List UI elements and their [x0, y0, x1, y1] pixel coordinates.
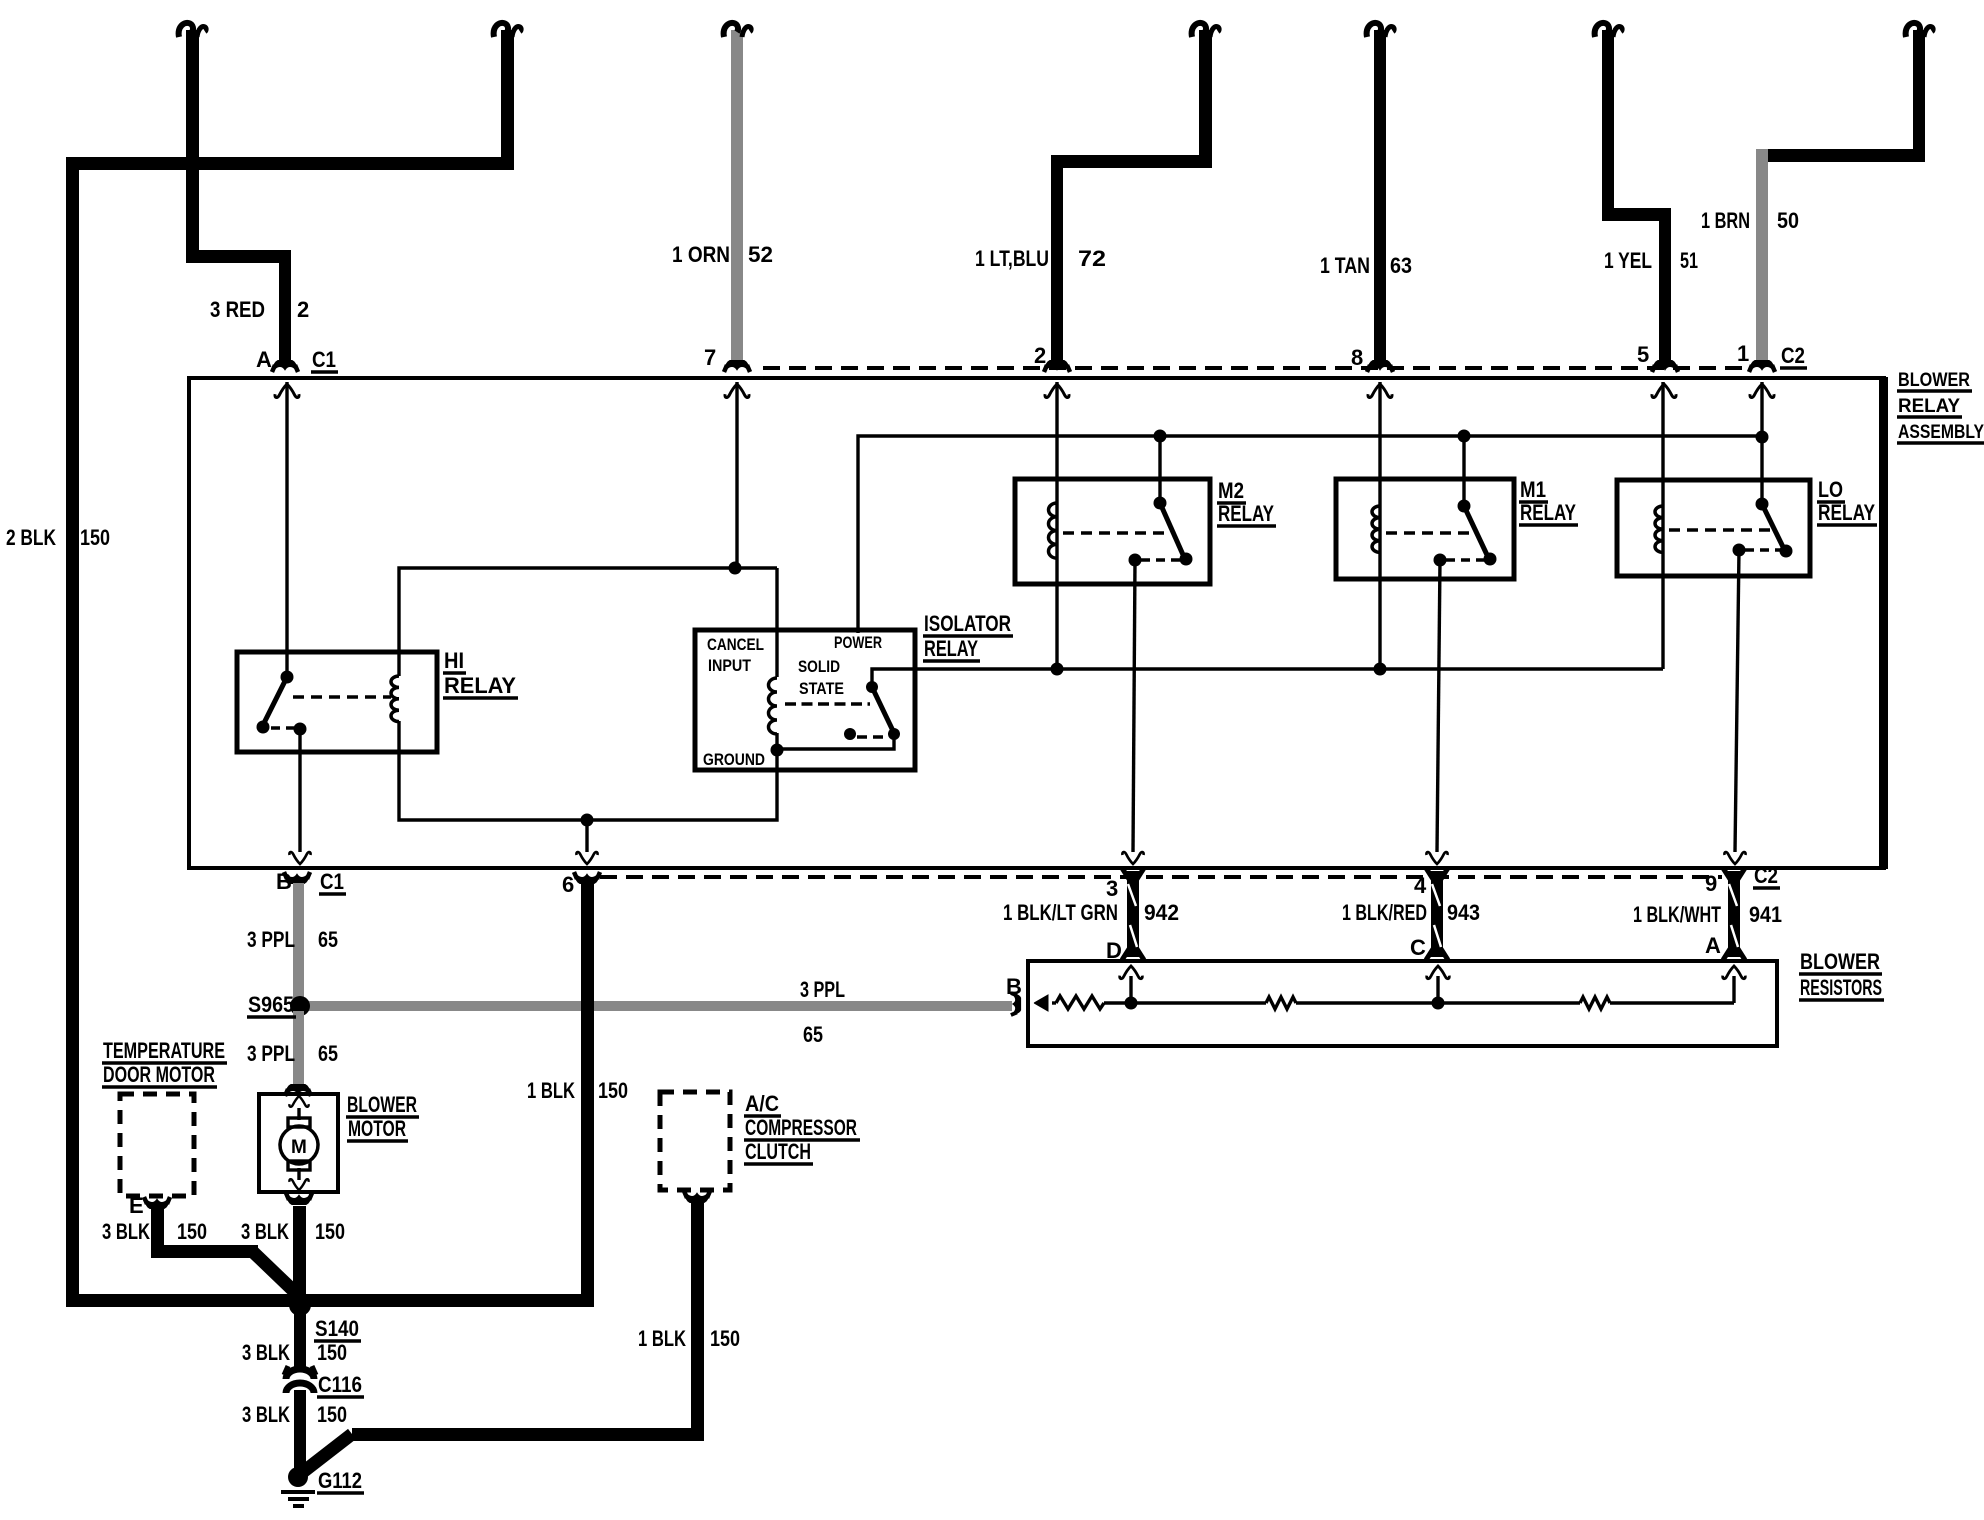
svg-text:3 BLK: 3 BLK: [242, 1340, 290, 1365]
svg-text:LO: LO: [1818, 477, 1843, 502]
label M2 RELAY: [1218, 478, 1274, 526]
svg-text:1 BRN: 1 BRN: [1701, 208, 1750, 233]
svg-text:RELAY: RELAY: [924, 636, 978, 661]
connector C116: [284, 1366, 316, 1393]
svg-text:7: 7: [704, 345, 716, 370]
svg-text:RELAY: RELAY: [1818, 500, 1875, 525]
terminal A riser: [1732, 976, 1735, 1003]
node 8 line: [1378, 382, 1381, 669]
svg-text:150: 150: [80, 525, 110, 550]
connector E: [144, 1197, 170, 1208]
hook W1: [179, 23, 206, 37]
label B C1 bottom: [276, 869, 344, 894]
svg-text:RESISTORS: RESISTORS: [1800, 975, 1882, 1000]
svg-text:8: 8: [1351, 345, 1363, 370]
svg-text:3 RED: 3 RED: [210, 297, 265, 322]
connector at a/c compressor clutch: [684, 1191, 710, 1202]
connector B of blower resistors: [1011, 993, 1020, 1015]
svg-text:1: 1: [1737, 341, 1749, 366]
connector bar 9 (941) C2: [1723, 868, 1745, 960]
wire 3 PPL 65 lower (gray): [293, 1011, 304, 1087]
M1 relay: [1336, 479, 1514, 579]
svg-text:1 BLK: 1 BLK: [638, 1326, 686, 1351]
svg-text:3 BLK: 3 BLK: [242, 1402, 290, 1427]
node 5 line: [1661, 382, 1664, 669]
svg-text:A: A: [256, 347, 272, 372]
label 3 PPL 65 upper: [247, 927, 338, 952]
svg-text:150: 150: [317, 1402, 347, 1427]
svg-text:S140: S140: [315, 1316, 359, 1341]
svg-text:6: 6: [562, 872, 574, 897]
HI relay output line to B C1: [289, 729, 310, 864]
a/c compressor clutch box (dashed): [660, 1092, 730, 1190]
svg-text:1 BLK/LT GRN: 1 BLK/LT GRN: [1003, 900, 1118, 925]
svg-text:M: M: [291, 1137, 307, 1158]
label 1 BLK/RED 943: [1342, 900, 1480, 925]
wire 1 BLK 150 from a/c compressor clutch: [303, 1202, 704, 1472]
wire 3 PPL 65 upper (gray): [293, 883, 304, 1004]
connector 7: [724, 361, 750, 372]
svg-text:BLOWER: BLOWER: [347, 1092, 417, 1117]
inner rectangle wiring (HI coil / isolator coil loop): [399, 562, 777, 827]
isolator relay U1: [695, 630, 915, 770]
connector 6: [574, 872, 600, 883]
svg-text:C1: C1: [320, 869, 344, 894]
resistor R3: [1580, 997, 1610, 1009]
blower relay assembly box: [189, 377, 1888, 869]
label 3 PPL 65 lower: [247, 1041, 338, 1066]
connector 5: [1652, 361, 1678, 372]
svg-text:CLUTCH: CLUTCH: [745, 1139, 811, 1164]
label ISOLATOR RELAY: [924, 611, 1011, 661]
svg-text:MOTOR: MOTOR: [348, 1116, 406, 1141]
label HI RELAY: [444, 648, 516, 698]
label A C1: [256, 347, 336, 372]
label 3 BLK 150 temp door: [102, 1219, 207, 1244]
svg-text:C: C: [1410, 935, 1426, 960]
connector at blower motor top: [285, 1085, 311, 1096]
svg-text:BLOWER: BLOWER: [1898, 370, 1970, 391]
svg-text:B: B: [276, 869, 292, 894]
wire 3 PPL 65 horizontal (gray): [300, 1001, 1012, 1011]
label TEMPERATURE DOOR MOTOR: [103, 1038, 225, 1087]
svg-text:S965: S965: [248, 992, 294, 1017]
wire 1 YEL 51: [1602, 30, 1671, 364]
svg-text:HI: HI: [444, 648, 464, 673]
hook W6: [1595, 23, 1622, 37]
hook W3: [724, 23, 751, 37]
label 3 BLK 150 c116-g112: [242, 1402, 347, 1427]
svg-text:STATE: STATE: [799, 679, 844, 698]
svg-text:SOLID: SOLID: [798, 657, 840, 676]
blower resistors internal circuit: [1034, 966, 1745, 1011]
svg-text:150: 150: [177, 1219, 207, 1244]
blower motor box: [259, 1094, 338, 1192]
temperature door motor box (dashed): [120, 1094, 194, 1196]
svg-text:1 BLK: 1 BLK: [527, 1078, 575, 1103]
label 1 ORN 52: [672, 242, 773, 267]
terminal D riser: [1129, 976, 1132, 1003]
svg-text:M2: M2: [1218, 478, 1244, 503]
svg-text:3 BLK: 3 BLK: [241, 1219, 289, 1244]
label LO RELAY: [1818, 477, 1875, 525]
node 2 line: [1055, 382, 1058, 669]
svg-text:150: 150: [598, 1078, 628, 1103]
label 1 BLK 150 a/c: [638, 1326, 740, 1351]
svg-text:1 ORN: 1 ORN: [672, 242, 730, 267]
svg-text:M1: M1: [1520, 477, 1546, 502]
svg-text:941: 941: [1749, 902, 1782, 927]
connector bar 3 (942): [1122, 868, 1144, 960]
connector bar 4 (943): [1426, 868, 1448, 960]
M1 output line to node 4: [1426, 560, 1447, 864]
svg-text:3: 3: [1106, 876, 1118, 901]
label 1 TAN 63: [1320, 253, 1412, 278]
node 7 line: [735, 382, 738, 568]
svg-text:52: 52: [748, 242, 773, 267]
splice S140: [289, 1294, 311, 1316]
svg-text:4: 4: [1414, 873, 1427, 898]
LO output line to node 9: [1724, 550, 1745, 864]
svg-text:50: 50: [1777, 208, 1799, 233]
svg-text:1 YEL: 1 YEL: [1604, 248, 1652, 273]
label BLOWER MOTOR: [347, 1092, 417, 1141]
svg-text:150: 150: [710, 1326, 740, 1351]
svg-text:2: 2: [1034, 343, 1046, 368]
svg-text:C2: C2: [1754, 863, 1778, 888]
svg-text:CANCEL: CANCEL: [707, 635, 764, 654]
wire 1 BLK 150 from node 6: [581, 883, 594, 1307]
hook W5: [1367, 23, 1394, 37]
motor M symbol: [288, 1118, 310, 1127]
dashed connector line C2 bottom: [600, 875, 1722, 879]
svg-text:3 PPL: 3 PPL: [247, 927, 295, 952]
svg-text:G112: G112: [318, 1468, 362, 1493]
svg-text:9: 9: [1705, 871, 1717, 896]
hook W7: [1906, 23, 1933, 37]
ground G112: [281, 1467, 315, 1506]
resistor R2: [1266, 997, 1296, 1009]
svg-text:B: B: [1006, 974, 1022, 999]
svg-text:POWER: POWER: [834, 633, 882, 652]
svg-text:51: 51: [1680, 248, 1698, 273]
label 2 BLK 150: [6, 525, 110, 550]
svg-text:1 BLK/WHT: 1 BLK/WHT: [1633, 902, 1721, 927]
svg-text:INPUT: INPUT: [708, 656, 752, 675]
wire C116 to G112: [294, 1390, 306, 1472]
hook W2: [494, 23, 521, 37]
wire H2 isolator switch bus: [872, 663, 1663, 688]
splice S965: [290, 996, 310, 1016]
connector 8: [1367, 361, 1393, 372]
HI relay: [237, 652, 437, 752]
node 1 line: [1760, 382, 1763, 504]
svg-text:942: 942: [1144, 900, 1179, 925]
svg-text:65: 65: [318, 1041, 338, 1066]
wire 2 BLK 150: [66, 30, 594, 1307]
svg-text:1 TAN: 1 TAN: [1320, 253, 1370, 278]
svg-text:RELAY: RELAY: [1520, 500, 1576, 525]
svg-text:ISOLATOR: ISOLATOR: [924, 611, 1011, 636]
label BLOWER RELAY ASSEMBLY: [1898, 370, 1984, 443]
svg-text:GROUND: GROUND: [703, 750, 765, 769]
label 1 BRN 50: [1701, 208, 1799, 233]
wire 1 ORN 52 (gray): [731, 30, 743, 364]
label M1 RELAY: [1520, 477, 1576, 525]
wire S140 to C116: [294, 1300, 306, 1372]
label SOLID STATE: [798, 657, 844, 698]
M2 relay: [1015, 479, 1210, 584]
label 1 LT BLU 72: [975, 246, 1106, 271]
svg-text:1 LT,BLU: 1 LT,BLU: [975, 246, 1049, 271]
svg-text:943: 943: [1447, 900, 1480, 925]
label 3 RED 2: [210, 297, 309, 322]
label 3 BLK 150 s140-c116: [242, 1340, 347, 1365]
resistor R1: [1056, 996, 1104, 1009]
svg-text:ASSEMBLY: ASSEMBLY: [1898, 422, 1984, 443]
svg-text:5: 5: [1637, 342, 1649, 367]
svg-text:A: A: [1705, 933, 1721, 958]
label 1 BLK/WHT 941: [1633, 902, 1782, 927]
wire 1 LT BLU 72: [1051, 30, 1212, 364]
label 1 BLK/LT GRN 942: [1003, 900, 1179, 925]
svg-text:150: 150: [315, 1219, 345, 1244]
LO relay: [1617, 480, 1810, 576]
wire 3 BLK 150 from blower motor: [293, 1206, 306, 1302]
svg-text:3 PPL: 3 PPL: [247, 1041, 295, 1066]
svg-text:C2: C2: [1781, 343, 1805, 368]
dashed connector line C2 top: [763, 366, 1750, 370]
svg-text:72: 72: [1078, 246, 1106, 271]
wire 3 RED 2: [186, 30, 291, 364]
svg-text:DOOR MOTOR: DOOR MOTOR: [103, 1062, 215, 1087]
label CANCEL INPUT: [707, 635, 764, 675]
node 6 drop line and arrow: [576, 820, 597, 864]
arrows into box top edge: [275, 384, 1774, 398]
svg-text:65: 65: [318, 927, 338, 952]
wire 3 BLK 150 from temperature door motor: [151, 1208, 300, 1297]
svg-text:COMPRESSOR: COMPRESSOR: [745, 1115, 857, 1140]
connector at blower motor bottom: [286, 1193, 312, 1204]
connector 1 C2: [1749, 361, 1775, 372]
svg-text:A/C: A/C: [745, 1091, 779, 1116]
wire 1 BRN 50: [1756, 30, 1925, 364]
label 1 YEL 51: [1604, 248, 1698, 273]
svg-text:RELAY: RELAY: [1898, 396, 1960, 417]
blower resistors box: [1028, 961, 1777, 1046]
svg-text:RELAY: RELAY: [1218, 501, 1274, 526]
connector 2: [1044, 361, 1070, 372]
M2 output line to node 3: [1122, 560, 1143, 864]
svg-text:3 PPL: 3 PPL: [800, 977, 845, 1002]
svg-text:150: 150: [317, 1340, 347, 1365]
wire H1 power bus: [858, 430, 1769, 634]
wire 1 TAN 63: [1374, 30, 1386, 364]
hook W4: [1192, 23, 1219, 37]
M2 switch feed line: [1158, 436, 1161, 503]
svg-text:63: 63: [1390, 253, 1412, 278]
svg-text:1 BLK/RED: 1 BLK/RED: [1342, 900, 1427, 925]
svg-text:2: 2: [297, 297, 309, 322]
label A/C COMPRESSOR CLUTCH: [745, 1091, 857, 1164]
svg-text:C1: C1: [312, 347, 336, 372]
node A line (conn A to HI relay pivot): [285, 382, 288, 677]
svg-text:65: 65: [803, 1022, 823, 1047]
label 1 BLK 150 node6 wire: [527, 1078, 628, 1103]
label 3 BLK 150 blower motor: [241, 1219, 345, 1244]
svg-text:BLOWER: BLOWER: [1800, 949, 1880, 974]
label BLOWER RESISTORS: [1800, 949, 1882, 1000]
svg-text:D: D: [1106, 938, 1122, 963]
svg-text:E: E: [129, 1193, 144, 1218]
svg-text:C116: C116: [318, 1372, 362, 1397]
M1 switch feed line: [1462, 436, 1465, 506]
terminal C riser: [1436, 976, 1439, 1003]
connector B C1: [284, 872, 310, 883]
svg-text:RELAY: RELAY: [444, 673, 516, 698]
svg-text:TEMPERATURE: TEMPERATURE: [103, 1038, 225, 1063]
connector A C1: [272, 361, 298, 372]
svg-text:3 BLK: 3 BLK: [102, 1219, 150, 1244]
svg-text:2 BLK: 2 BLK: [6, 525, 56, 550]
